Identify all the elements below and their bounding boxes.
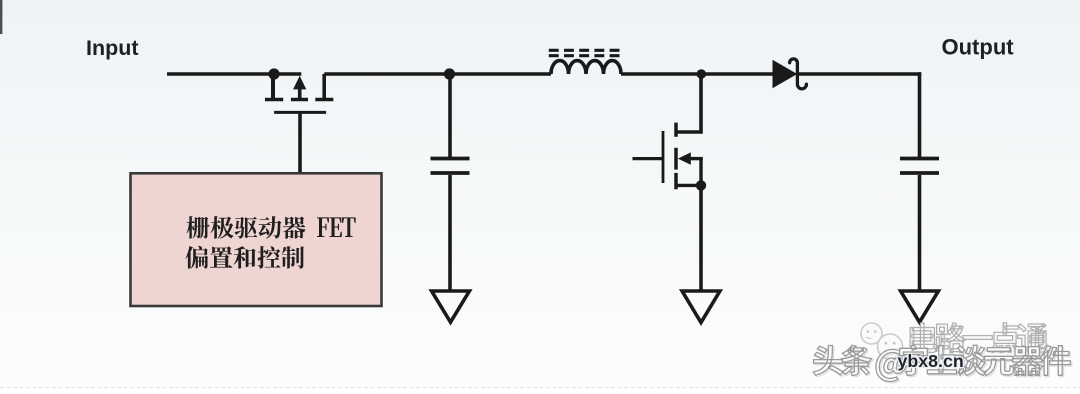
svg-text:ybx8.cn: ybx8.cn [898,351,964,371]
transistor Q2 (N-FET low side) [633,123,703,190]
inductor core dashes row 2 [549,54,620,57]
watermark text 头条 [813,345,871,375]
diode D1 schottky: anode triangle [773,61,796,88]
watermark shadow 头条@字上谈元器件 [815,347,1072,383]
transistor Q1 (P-FET pass element) [265,74,333,112]
control box text line 2: 偏置和控制 [185,246,304,269]
Q2 body arrow [678,152,691,164]
Q1 body arrow [293,76,306,90]
wire: Q1 drain to inductor through node A [324,72,551,76]
inductor core dashes row 1 [549,49,620,52]
wire: diode cathode to output corner [798,72,921,76]
watermark @ [876,349,906,381]
edge artifact top-left [0,0,2,34]
wire: inductor to diode anode through node B [621,72,773,76]
control box text line 1: 栅极驱动器 FET [187,216,306,239]
watermark text 电路一点通 [910,323,1047,353]
ground for C2 [901,291,939,322]
wire: Q1 gate to control box [298,114,302,175]
capacitor C2 (output) [900,159,939,174]
wire: C1 to ground [448,175,452,291]
svg-text:Output: Output [942,35,1015,60]
watermark smiley faces [861,323,903,359]
node B junction dot [697,69,707,79]
wire: node B down to Q2 drain [676,74,701,132]
watermark text 字上谈元器件 [900,345,1071,375]
svg-text:Input: Input [86,36,139,60]
wire: output drop to C2 [918,72,922,157]
capacitor C1 [431,159,470,174]
ground for C1 [432,291,470,322]
Q2 source junction dot [696,180,706,190]
wire: Q2 source to ground [699,185,703,291]
node A junction dot [268,68,279,79]
bottom edge artifact [0,387,1080,389]
diode D1 cathode bar with schottky hooks [790,59,807,89]
control box (gate driver FET bias and control) [131,173,382,306]
wire: input to Q1 [167,72,301,76]
wire: C2 to ground [918,175,922,291]
ground for Q2 [682,291,720,323]
inductor L1 [551,61,621,74]
wire: node A down to C1 [448,74,452,157]
node C1 tap junction dot [444,68,455,79]
